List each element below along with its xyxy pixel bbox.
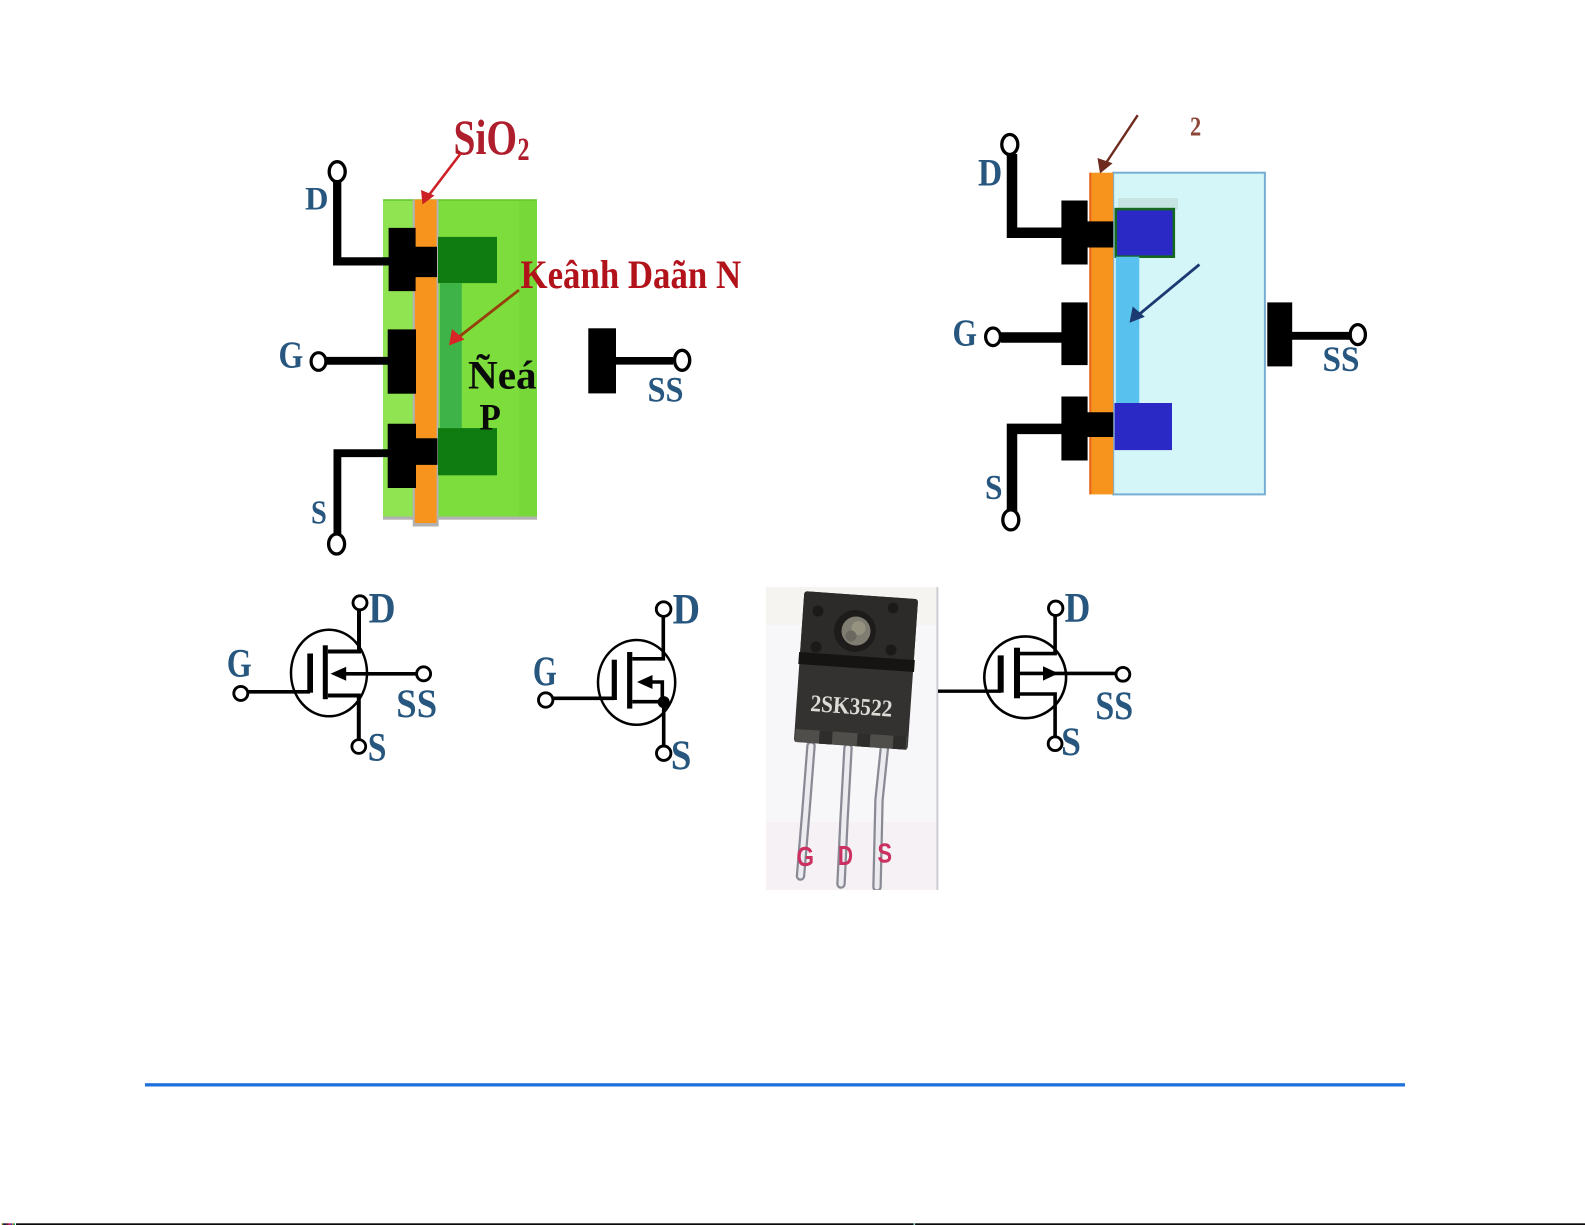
package mounting hole (834, 610, 876, 652)
Q2 drain lead (632, 617, 663, 659)
photo of 2SK3522 transistor package (766, 587, 938, 890)
svg-text:S: S (878, 838, 893, 869)
transistor legs G D S (801, 746, 885, 887)
Q2 terminal G circle (539, 693, 553, 707)
svg-text:D: D (673, 587, 700, 634)
gate contact (right diagram) (1061, 302, 1087, 365)
Q2 gate lead (553, 696, 614, 700)
svg-text:D: D (1065, 586, 1091, 632)
wire D (right) (1012, 154, 1062, 233)
Q1 terminal S circle (352, 740, 366, 754)
arrow SiO2 to oxide (421, 153, 461, 205)
SS contact (right diagram) (1267, 302, 1292, 366)
wire SS (right) (1292, 332, 1350, 340)
top p region (blue) with green border (1116, 209, 1174, 257)
p channel (light blue) (1116, 257, 1140, 403)
substrate top border (383, 199, 537, 201)
svg-text:2: 2 (518, 132, 530, 168)
Q2 substrate arrowhead (637, 675, 653, 689)
svg-text:SiO: SiO (454, 109, 518, 165)
terminal G circle (left) (311, 353, 326, 371)
svg-text:P: P (479, 398, 501, 439)
bottom p region (blue) (1115, 403, 1173, 450)
arrow Kenh Dan N to channel (449, 290, 519, 346)
svg-text:S: S (671, 733, 692, 779)
wire S (right) (1012, 429, 1062, 511)
wire D (left) (337, 180, 389, 261)
svg-text:G: G (797, 841, 815, 872)
terminal S circle (right) (1003, 510, 1019, 530)
gate contact (388, 329, 416, 393)
Q1 gate bar (307, 654, 313, 693)
Q1 substrate arrow wire to SS (340, 672, 417, 676)
svg-text:Ñeá: Ñeá (468, 352, 537, 397)
wire SS (left) (616, 357, 673, 365)
source contact (right diagram) (1061, 397, 1113, 461)
MOSFET Q2 body circle (598, 640, 675, 725)
Q2 terminal S circle (657, 746, 671, 760)
svg-text:S: S (1061, 719, 1081, 764)
Q1 channel bar (323, 645, 328, 699)
svg-text:D: D (305, 181, 329, 217)
horizontal blue rule (145, 1083, 1405, 1086)
oxide layer right diagram (orange) (1090, 173, 1113, 495)
Q3 gate lead from photo (938, 690, 1001, 693)
Q3 terminal D circle (1049, 601, 1063, 615)
arrow 2 to oxide (maroon) (1098, 115, 1138, 173)
N+ drain region (438, 237, 497, 283)
N channel region (440, 283, 462, 428)
package mold dots (811, 603, 899, 656)
bottom page edge line (16, 1223, 1585, 1225)
arrow to channel (navy) (1130, 265, 1200, 323)
svg-text:G: G (227, 640, 252, 685)
terminal D circle (left) (329, 162, 345, 182)
P substrate body (green) (383, 200, 537, 518)
substrate bottom border (383, 517, 537, 520)
wire G (left) (326, 357, 390, 365)
Q3 substrate arrowhead pointing right (1043, 666, 1059, 680)
N substrate body (pale cyan) (1113, 173, 1265, 495)
terminal D circle (right) (1002, 135, 1018, 155)
Q2 terminal D circle (656, 602, 671, 617)
wire G (right) (1001, 332, 1062, 343)
Q1 terminal SS circle (417, 667, 431, 681)
svg-text:SS: SS (396, 681, 437, 726)
Q3 terminal SS circle (1116, 667, 1130, 681)
MOSFET Q1 body circle (291, 630, 367, 717)
terminal S circle (left) (329, 534, 345, 554)
photo pin labels G D S (797, 838, 893, 873)
Q2 gate bar (612, 660, 617, 700)
svg-text:Keânh Daãn N: Keânh Daãn N (521, 252, 742, 297)
svg-text:S: S (311, 495, 327, 532)
SiO2 oxide layer (orange) (415, 200, 437, 524)
svg-text:G: G (533, 649, 557, 695)
contact column highlight (383, 200, 415, 518)
SS body electrode (left) (588, 328, 616, 393)
svg-text:D: D (369, 585, 396, 632)
svg-text:SS: SS (648, 370, 684, 410)
shading above p region (1118, 198, 1178, 210)
Q1 terminal G circle (234, 686, 248, 700)
Q2 channel bar (627, 652, 632, 709)
svg-text:G: G (953, 313, 978, 355)
Q3 drain lead (1020, 616, 1055, 654)
N+ source region (438, 428, 497, 475)
svg-text:G: G (279, 335, 304, 377)
svg-text:2: 2 (1190, 112, 1201, 142)
svg-text:SS: SS (1323, 339, 1360, 379)
bottom edge color specks (2, 1223, 915, 1225)
Q2 source lead (632, 702, 663, 746)
transistor package body (793, 591, 919, 750)
Q1 source lead (328, 696, 359, 741)
MOSFET Q3 body circle (984, 636, 1066, 718)
Q3 channel bar (1014, 648, 1020, 699)
Q1 terminal D circle (353, 596, 367, 610)
source contact (388, 424, 438, 488)
Q2 substrate-source dot (658, 696, 670, 708)
Q2 substrate arrow wire (648, 682, 662, 702)
svg-text:SS: SS (1095, 683, 1133, 728)
Q3 source lead (1020, 694, 1055, 737)
Q3 gate bar (998, 655, 1004, 692)
Q3 substrate arrow wire to SS (1020, 672, 1116, 676)
oxide left edge (1089, 173, 1091, 495)
substrate right edge band (519, 200, 537, 518)
terminal SS circle (left) (675, 350, 690, 370)
terminal SS circle (right) (1350, 325, 1365, 345)
Q1 drain lead (328, 609, 359, 652)
svg-text:D: D (838, 840, 853, 871)
Q1 substrate arrowhead (331, 667, 347, 681)
SiO2 oxide layer border (gray) (413, 200, 439, 527)
terminal G circle (right) (986, 328, 1001, 346)
Q1 gate lead (248, 690, 310, 694)
wire S (left) (337, 453, 391, 535)
drain contact (right diagram) (1061, 201, 1113, 265)
svg-text:S: S (985, 468, 1003, 507)
svg-text:D: D (978, 151, 1002, 194)
drain contact (389, 228, 437, 291)
svg-text:S: S (368, 724, 387, 769)
Q3 terminal S circle (1048, 737, 1062, 751)
